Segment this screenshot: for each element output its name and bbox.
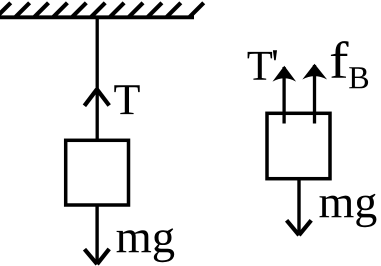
ceiling hatch 1 <box>0 3 11 17</box>
ceiling hatch 8 <box>129 3 143 17</box>
tension arrowhead T <box>84 89 109 106</box>
label f <box>331 41 349 78</box>
tension arrow T' right <box>273 66 297 124</box>
mass box right <box>267 113 330 178</box>
label mg right <box>320 194 377 228</box>
mass box left <box>66 140 129 205</box>
ceiling hatch 4 <box>53 3 67 17</box>
ceiling hatch 11 <box>190 3 204 17</box>
ceiling hatch 7 <box>110 3 124 17</box>
ceiling hatch 3 <box>35 3 49 17</box>
label T right <box>248 52 273 80</box>
ceiling hatch 6 <box>91 3 105 17</box>
ceiling hatch 2 <box>16 3 30 17</box>
ceiling hatch 5 <box>72 3 86 17</box>
string wire <box>96 17 99 141</box>
label prime <box>273 50 277 60</box>
weight arrow mg right <box>287 178 312 235</box>
weight arrow mg left <box>85 205 110 264</box>
label mg left <box>117 228 175 262</box>
label T <box>114 85 139 114</box>
ceiling hatch 10 <box>167 3 181 17</box>
ceiling hatch 9 <box>148 3 162 17</box>
buoyancy arrow fB right <box>302 64 327 124</box>
ceiling line <box>0 15 194 19</box>
label B sub <box>349 67 368 88</box>
